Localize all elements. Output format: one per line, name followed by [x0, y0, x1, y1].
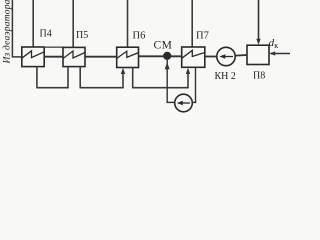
- svg-text:П7: П7: [196, 31, 209, 42]
- svg-text:П6: П6: [133, 31, 146, 42]
- svg-text:П4: П4: [40, 29, 52, 40]
- wire: pump КН2 to П8: [235, 54, 247, 57]
- svg-text:КН 2: КН 2: [215, 71, 236, 82]
- wire: riser into П7 bottom with arrow: [187, 73, 189, 88]
- wire: П7 drain down to pump: [195, 67, 197, 103]
- wire: steam line into П6 top: [127, 0, 129, 47]
- pump КН2 (circle with left arrow): [217, 47, 235, 65]
- wire: main condensate line П5-П6: [85, 56, 117, 58]
- wire: main condensate line П4-П5: [44, 56, 63, 58]
- svg-text:к: к: [274, 41, 278, 50]
- wire: П7 to pump КН2: [205, 56, 217, 58]
- wire: steam line into П7 top: [191, 0, 193, 47]
- wire: deaerator feed pipe (left, L-shaped into П4): [12, 0, 21, 57]
- svg-text:СМ: СМ: [154, 40, 173, 52]
- wire: pump loop bottom left segment: [167, 101, 175, 103]
- wire: pump loop right segment: [192, 101, 196, 103]
- wire: condensate inflow d_к from right into П8: [271, 53, 291, 55]
- svg-text:П8: П8: [253, 71, 265, 82]
- pump КН (drain pump, circle with left arrow): [175, 94, 193, 112]
- wire: steam line into П5 top: [72, 0, 74, 47]
- heater П8 (plain box): [247, 45, 269, 64]
- wire: main condensate line П6-П7 through node СМ: [139, 55, 182, 57]
- heater П5: [63, 47, 85, 66]
- wire: drain П4 down: [36, 67, 38, 88]
- wire: faint top bridge between П4 and П5: [44, 46, 64, 48]
- wire: drain П5 down: [79, 67, 81, 88]
- wire: drain П6 down: [132, 68, 134, 88]
- node СМ (mixer, filled): [163, 52, 171, 60]
- wire: steam line toward П8 with down arrow: [258, 0, 260, 40]
- wire: drain bottom П4-П5: [36, 87, 68, 89]
- heater П7: [182, 47, 205, 67]
- wire: steam line into П4 top: [32, 0, 34, 47]
- wire: riser into П6 bottom with arrow: [122, 73, 124, 88]
- wire: drain bottom П6-П7 (crosses СМ downpipe): [132, 87, 189, 89]
- heater П6: [117, 47, 139, 67]
- svg-text:Из деаэратора: Из деаэратора: [2, 0, 13, 65]
- wire: drain bottom П5-П6: [80, 87, 124, 89]
- wire: СМ node down pipe with up arrow: [166, 58, 168, 102]
- wire: riser into П5 bottom: [67, 67, 69, 89]
- svg-text:П5: П5: [76, 30, 88, 41]
- heater П4: [22, 47, 44, 67]
